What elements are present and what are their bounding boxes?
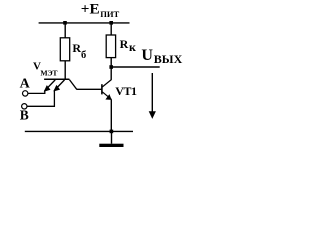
terminal circle B [22,104,27,109]
resistor Rб [60,38,69,61]
svg-text:к: к [129,40,136,54]
ground bar [99,144,123,147]
node junction dot on bottom rail [110,130,114,134]
svg-text:+E: +E [81,1,100,18]
wire VT1 collector up to output node [110,67,112,80]
svg-text:МЭТ: МЭТ [40,68,58,77]
wire top supply rail [39,22,130,24]
wire Rб bottom lead to input transistor base [64,61,66,80]
node output junction dot [109,65,113,69]
node junction dot left on top rail [63,21,67,25]
transistor VT emitter 2 [54,80,64,91]
wire bottom rail [25,130,133,132]
transistor VT1 base bar [101,84,103,94]
transistor VT multi-emitter input: base bar [44,78,69,80]
svg-text:ВЫХ: ВЫХ [154,52,183,66]
wire Rк top lead [110,23,112,35]
wire Rб top lead [64,23,66,38]
svg-text:R: R [120,37,129,51]
transistor VT1 emitter diagonal with arrow [102,92,111,99]
transistor VT emitter 1 [45,80,56,91]
svg-text:U: U [141,47,153,64]
wire VT1 emitter down to bottom rail [110,99,112,131]
svg-text:б: б [81,50,86,61]
wire VT collector to VT1 base [77,88,102,90]
wire input A [28,91,45,94]
wire ground lead [111,131,113,143]
wire Rк bottom lead to output node [110,58,112,67]
arrow Uвых direction [151,73,153,113]
terminal circle A [23,91,28,96]
node junction dot right on top rail [109,21,113,25]
svg-text:VT1: VT1 [115,84,137,98]
svg-text:ПИТ: ПИТ [100,9,119,19]
resistor Rк [106,35,115,58]
wire input B [27,90,55,106]
transistor VT collector diagonal [69,80,76,90]
transistor VT1 collector diagonal [102,80,111,87]
svg-text:A: A [20,76,31,91]
wire output to the right [111,66,160,68]
